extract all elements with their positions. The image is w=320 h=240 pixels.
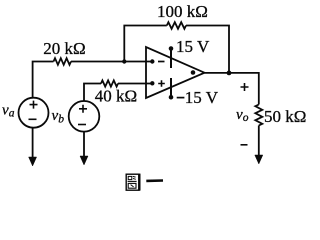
supply label -15 V bbox=[177, 97, 185, 99]
svg-text:b: b bbox=[58, 113, 64, 125]
va minus sign bbox=[29, 118, 37, 120]
op-amp inverting input terminal dot bbox=[150, 59, 154, 63]
vo minus sign bbox=[241, 144, 248, 146]
vo plus sign bbox=[241, 83, 249, 91]
wire: vb bottom lead bbox=[83, 132, 85, 157]
svg-text:a: a bbox=[9, 108, 15, 120]
resistor RL 50 kOhm (vertical zigzag) bbox=[255, 105, 262, 126]
wire: feedback left vertical bbox=[124, 26, 167, 62]
op-amp negative supply pin bbox=[170, 78, 172, 97]
node junction dot output/feedback bbox=[227, 71, 232, 76]
resistor R1 20 kOhm (zigzag) bbox=[54, 58, 72, 65]
resistor R2 100 kOhm (zigzag) bbox=[167, 22, 186, 29]
wire: va bottom lead bbox=[32, 128, 34, 158]
svg-text:40 kΩ: 40 kΩ bbox=[95, 87, 137, 106]
caption character TU (figure) bbox=[126, 174, 139, 191]
va ground arrow bbox=[29, 157, 37, 166]
svg-text:20 kΩ: 20 kΩ bbox=[43, 39, 85, 58]
load ground arrow bbox=[255, 155, 263, 164]
op-amp positive supply pin bbox=[170, 49, 172, 69]
wire: 20k to op-amp inverting input bbox=[71, 61, 152, 63]
node junction dot on inverting line bbox=[122, 59, 126, 63]
svg-text:100 kΩ: 100 kΩ bbox=[157, 2, 208, 21]
op-amp plus sign bbox=[158, 80, 165, 87]
svg-text:15 V: 15 V bbox=[185, 88, 219, 107]
va plus sign bbox=[30, 101, 38, 109]
op-amp noninverting input terminal dot bbox=[150, 81, 154, 85]
vb ground arrow bbox=[80, 156, 88, 165]
wire: 40k to op-amp noninverting input bbox=[118, 83, 152, 85]
wire: output line bbox=[205, 73, 259, 105]
wire: load bottom lead bbox=[258, 126, 260, 156]
svg-text:15 V: 15 V bbox=[176, 37, 210, 56]
caption character YI (one) bbox=[146, 179, 163, 182]
svg-text:o: o bbox=[243, 112, 249, 124]
op-amp minus sign bbox=[158, 61, 165, 63]
wire: feedback top right + right vertical down to output bbox=[186, 26, 229, 74]
op-amp U1 triangle bbox=[146, 47, 205, 98]
vb minus sign bbox=[78, 124, 86, 126]
op-amp output terminal dot bbox=[191, 70, 196, 75]
wire: vb top lead to noninverting line bbox=[84, 84, 101, 102]
voltage source va (circle) bbox=[19, 98, 49, 128]
vb plus sign bbox=[79, 105, 87, 113]
svg-text:50 kΩ: 50 kΩ bbox=[264, 107, 306, 126]
resistor R3 40 kOhm (zigzag) bbox=[101, 80, 118, 86]
voltage source vb (circle) bbox=[69, 101, 100, 132]
wire: va top lead + inverting input line bbox=[33, 62, 54, 98]
